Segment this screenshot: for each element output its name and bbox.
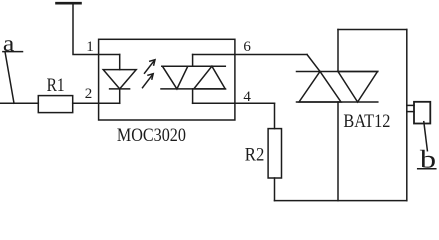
wire R2 to bottom rail: [274, 178, 276, 201]
LED D1 triangle: [103, 70, 136, 89]
wire pin4 down to R2: [274, 103, 276, 128]
wire pin 4: [193, 102, 275, 104]
bottom wire: [275, 200, 407, 202]
triac BAT12 bottom bar: [297, 101, 378, 103]
terminal b contact bar: [418, 168, 436, 170]
terminal a contact bar: [3, 51, 23, 53]
svg-text:MOC3020: MOC3020: [117, 126, 186, 146]
triac BAT12 MT2 lead: [337, 30, 339, 72]
triac BAT12 MT1 lead: [337, 102, 339, 201]
optocoupler U1 box MOC3020: [99, 39, 235, 120]
power rail bar: [57, 2, 81, 5]
internal triac bottom bar: [161, 88, 226, 90]
svg-text:a: a: [3, 31, 15, 56]
internal triac left triangle: [162, 66, 187, 89]
top wire: [338, 29, 407, 31]
svg-text:4: 4: [243, 89, 251, 105]
wire R1 to pin 2: [73, 102, 120, 104]
internal triac top bar: [162, 65, 226, 67]
light arrow 2: [143, 74, 154, 88]
terminal b socket box: [414, 102, 430, 124]
resistor R1 body: [38, 96, 72, 113]
resistor R2 body: [268, 129, 281, 178]
internal triac right triangle: [194, 66, 225, 89]
svg-text:2: 2: [85, 86, 93, 102]
svg-text:6: 6: [243, 39, 251, 55]
wire from power bar down: [73, 3, 120, 54]
wire pin 6: [193, 54, 307, 56]
triac BAT12 left triangle: [299, 72, 341, 103]
internal triac MT1 lead: [192, 89, 194, 103]
terminal a lever: [5, 52, 14, 103]
terminal b plug stub lower: [407, 111, 414, 113]
LED D1 anode lead: [119, 55, 121, 70]
svg-text:R2: R2: [245, 145, 264, 165]
terminal b lever: [424, 122, 428, 151]
svg-text:BAT12: BAT12: [343, 112, 390, 132]
triac BAT12 top bar: [297, 71, 378, 73]
svg-text:R1: R1: [47, 76, 65, 96]
wire left input to R1: [0, 102, 38, 104]
LED D1 cathode lead: [119, 89, 121, 103]
internal triac MT2 lead: [192, 55, 194, 67]
triac BAT12 right triangle: [338, 72, 378, 103]
right vertical wire: [406, 30, 408, 201]
gate lead diagonal: [307, 55, 320, 72]
light arrow 1: [145, 60, 156, 73]
terminal b plug stub upper: [407, 104, 414, 106]
svg-text:1: 1: [86, 39, 94, 55]
svg-text:b: b: [420, 145, 436, 173]
LED D1 cathode bar: [110, 88, 130, 90]
